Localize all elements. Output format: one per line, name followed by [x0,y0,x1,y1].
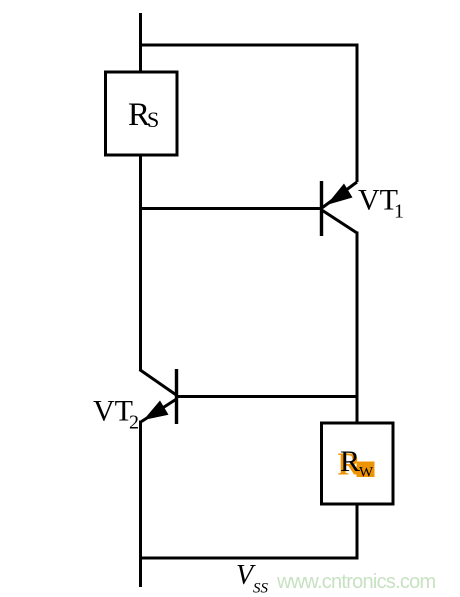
wire: bottom rail (VSS) [139,557,359,560]
wire: VT2 base wire to right vertical [177,395,359,398]
svg-text:S: S [147,107,159,132]
wire: RW bottom lead [356,504,359,560]
VT2 base bar [175,369,178,424]
svg-text:VT: VT [358,184,398,217]
label VT1 [358,184,404,223]
wire: left vertical, VT2 emitter down to bottom rail and stub [139,421,142,588]
resistor R1 (RS) [106,72,178,155]
svg-text:SS: SS [253,581,269,597]
VT2 collector diagonal from left vertical [140,370,178,396]
wire: right vertical, top rail to VT1 emitter [356,44,359,183]
svg-text:1: 1 [394,201,404,223]
VT1 collector diagonal [323,211,358,234]
VT1 base bar [320,181,323,236]
wire: VT1 base wire from left vertical [139,207,321,210]
VT2 emitter arrow [144,401,169,421]
svg-text:2: 2 [129,412,139,434]
wire: top rail [139,44,359,47]
VT2 emitter diagonal [142,399,177,422]
transistor VT1 (PNP) [322,181,358,236]
wire: left vertical, RS bottom to VT2 collector bend [139,155,142,370]
VT1 emitter arrow [327,184,353,206]
label VSS [236,560,269,597]
resistor R2 (RW) [322,423,394,504]
label VT2 [93,395,139,434]
svg-text:www.cntronics.com: www.cntronics.com [276,571,435,593]
svg-text:R: R [340,445,360,478]
wire: left vertical top stub (supply input to RS) [139,13,142,72]
svg-text:W: W [359,465,374,481]
transistor VT2 (mirrored) [140,369,178,424]
svg-text:VT: VT [93,395,133,428]
wire: right vertical, VT1 collector down to RW node [356,232,359,424]
VT1 emitter diagonal [323,182,358,208]
